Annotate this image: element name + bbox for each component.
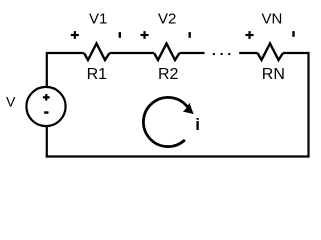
wire bottom-left up to source (46, 126, 48, 158)
polarity minus of V1 (119, 32, 121, 38)
wire R2 to ellipsis (180, 52, 205, 54)
wire right side (307, 52, 309, 157)
svg-text:VN: VN (262, 11, 283, 28)
svg-text:i: i (195, 115, 200, 134)
polarity minus of VN (292, 31, 294, 37)
svg-text:R1: R1 (87, 66, 108, 83)
wire bottom (46, 155, 310, 157)
voltage source plus (43, 94, 50, 101)
resistor R2 (154, 44, 180, 61)
svg-text:V1: V1 (89, 11, 107, 28)
polarity plus of V1 (71, 31, 79, 39)
svg-text:RN: RN (262, 66, 285, 83)
resistor RN (258, 44, 284, 61)
wire top-left from corner to R1 (47, 53, 84, 87)
ellipsis dots (213, 53, 215, 55)
wire RN to top-right corner (283, 52, 309, 54)
wire R1 to R2 (110, 52, 155, 54)
voltage source V circle (26, 87, 65, 126)
polarity plus of V2 (141, 31, 149, 39)
polarity plus of VN (246, 31, 254, 39)
resistor R1 (84, 44, 110, 61)
svg-text:V2: V2 (158, 11, 176, 28)
svg-text:V: V (6, 94, 16, 110)
wire ellipsis to RN (239, 52, 257, 54)
polarity minus of V2 (189, 32, 191, 38)
current loop arrow (143, 97, 193, 146)
svg-text:R2: R2 (158, 66, 179, 83)
voltage source minus (44, 111, 48, 114)
